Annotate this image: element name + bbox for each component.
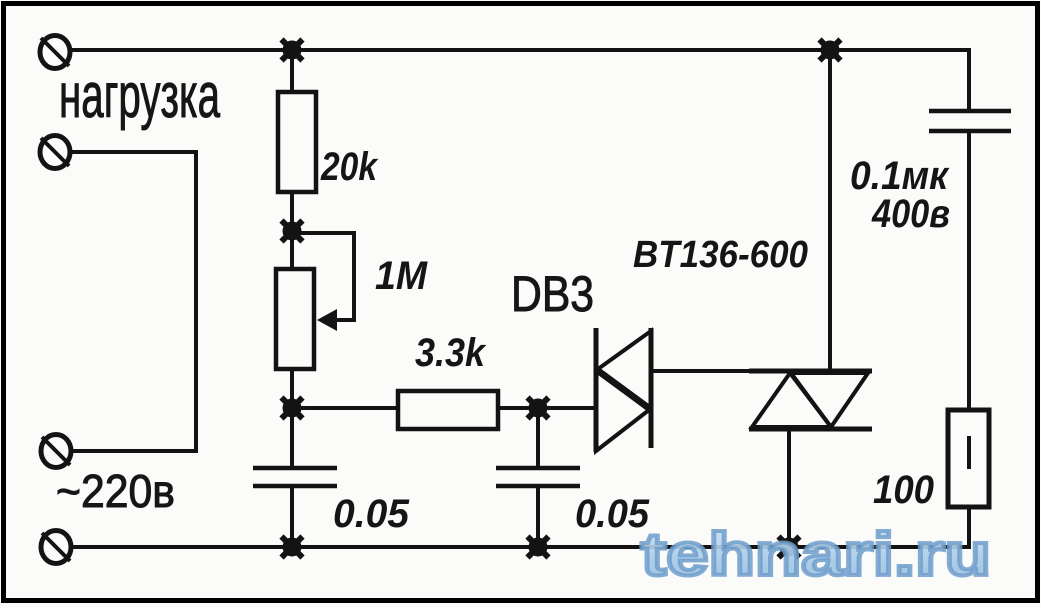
wire top right corner — [968, 50, 969, 111]
resistor R3 3.3k — [398, 391, 498, 429]
capacitor C2 0.05 center — [496, 468, 580, 486]
wire X2 to X3 bracket — [70, 152, 196, 451]
wire cap to resistor — [967, 131, 971, 410]
junction node F (bottom rail / C1) — [282, 537, 303, 558]
resistor R1 20k — [278, 92, 316, 192]
wire diac to triac — [651, 369, 749, 373]
svg-text:3.3k: 3.3k — [415, 331, 487, 375]
label 3.3k — [415, 331, 487, 375]
label 0.05 left — [333, 492, 410, 536]
label 0.1мк — [850, 154, 950, 198]
label 400в — [871, 192, 950, 236]
resistor R4 100 — [948, 410, 989, 507]
svg-text:0.05: 0.05 — [333, 492, 410, 536]
label 0.05 right — [575, 492, 650, 536]
wire 20k to pot — [290, 192, 294, 269]
wire C1 bottom lead — [290, 486, 294, 547]
junction node B (top rail / triac MT2) — [820, 40, 841, 61]
capacitor C3 0.1mk — [929, 111, 1011, 131]
terminal X4 (~220v bottom) — [41, 531, 71, 564]
capacitor C1 0.05 left — [253, 468, 337, 486]
diac VD1 DB3 — [596, 328, 651, 452]
wire triac MT1 down — [787, 429, 791, 547]
label 100 — [873, 468, 934, 512]
junction node A (top rail / 20k) — [282, 40, 303, 61]
label 20k — [320, 145, 378, 189]
wire top rail — [69, 48, 968, 52]
junction node E (3.3k / diac / C2) — [528, 398, 549, 419]
terminal X1 (load, top) — [40, 36, 70, 69]
junction node G (bottom rail / C2) — [528, 537, 549, 558]
svg-text:100: 100 — [873, 468, 934, 512]
wire C2 bottom lead — [536, 486, 540, 547]
junction node H (bottom rail / triac MT1) — [779, 537, 800, 558]
label DB3 — [511, 266, 594, 322]
terminal X2 (load, second) — [40, 136, 70, 169]
svg-text:1M: 1M — [375, 254, 429, 298]
wire wiper loop — [292, 233, 354, 320]
svg-text:0.05: 0.05 — [575, 492, 650, 536]
wiper arrow — [317, 309, 337, 331]
svg-text:~220в: ~220в — [56, 465, 175, 517]
label 1M — [375, 254, 429, 298]
svg-text:нагрузка: нагрузка — [59, 61, 221, 131]
wire triac MT2 up — [828, 50, 832, 371]
wire C2 top lead — [536, 408, 540, 468]
terminal X3 (~220v top) — [41, 435, 71, 468]
wire resistor to bottom rail — [967, 507, 971, 549]
label BT136-600 — [633, 234, 808, 276]
wire bottom rail — [71, 545, 969, 549]
svg-text:tehnari.ru: tehnari.ru — [641, 521, 991, 588]
potentiometer R2 1M body — [276, 269, 314, 369]
junction node C (20k / pot / wiper) — [282, 221, 303, 242]
node wire gate row — [292, 406, 398, 410]
svg-text:DB3: DB3 — [511, 266, 594, 322]
junction node D (pot / 3.3k / C1) — [282, 398, 303, 419]
svg-text:BT136-600: BT136-600 — [633, 234, 808, 276]
svg-text:400в: 400в — [871, 192, 950, 236]
svg-text:20k: 20k — [320, 145, 378, 189]
label ~220в — [56, 465, 175, 517]
wire pot bottom lead — [290, 369, 294, 466]
wire 20k top lead — [290, 50, 294, 92]
wire 3.3k to diac — [498, 406, 596, 410]
triac VS1 BT136-600 — [749, 371, 872, 429]
label нагрузка — [59, 61, 221, 131]
